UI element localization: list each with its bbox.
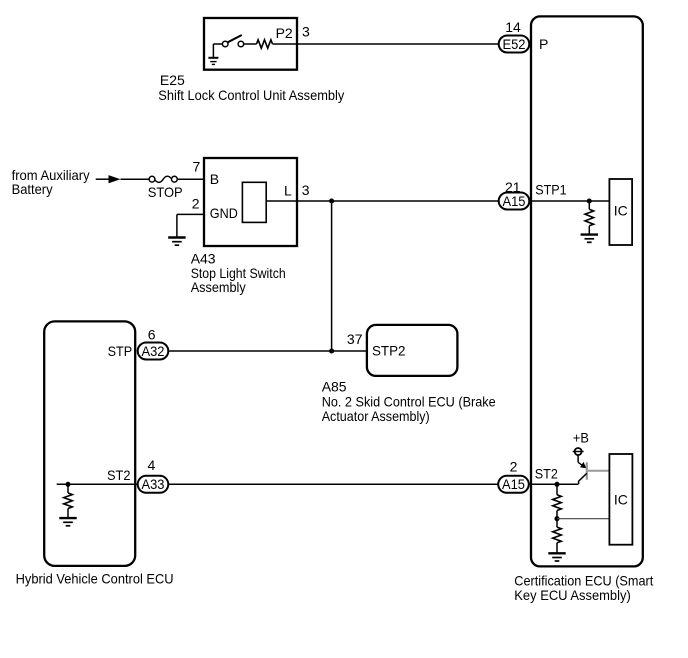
svg-text:E25: E25 bbox=[160, 72, 185, 88]
svg-text:STP: STP bbox=[108, 343, 133, 359]
svg-text:Shift Lock Control Unit Assemb: Shift Lock Control Unit Assembly bbox=[158, 87, 344, 103]
svg-text:2: 2 bbox=[510, 458, 518, 474]
svg-text:E52: E52 bbox=[503, 36, 526, 52]
svg-text:STP2: STP2 bbox=[372, 343, 406, 359]
svg-text:Actuator Assembly): Actuator Assembly) bbox=[322, 408, 430, 424]
svg-text:STOP: STOP bbox=[148, 184, 183, 200]
svg-text:A15: A15 bbox=[503, 193, 526, 209]
svg-text:3: 3 bbox=[302, 23, 310, 39]
svg-text:A33: A33 bbox=[142, 476, 165, 492]
svg-text:A43: A43 bbox=[191, 250, 216, 266]
svg-text:+B: +B bbox=[573, 430, 589, 446]
svg-text:6: 6 bbox=[148, 327, 156, 343]
svg-text:A32: A32 bbox=[142, 343, 165, 359]
svg-text:2: 2 bbox=[192, 196, 200, 212]
svg-text:L: L bbox=[284, 182, 292, 198]
svg-text:A15: A15 bbox=[502, 476, 525, 492]
svg-text:Battery: Battery bbox=[12, 181, 53, 197]
svg-text:A85: A85 bbox=[322, 379, 347, 395]
svg-text:STP1: STP1 bbox=[535, 181, 567, 197]
svg-text:P2: P2 bbox=[276, 25, 293, 41]
svg-text:21: 21 bbox=[505, 179, 521, 195]
svg-text:B: B bbox=[210, 171, 219, 187]
svg-text:37: 37 bbox=[347, 331, 363, 347]
svg-text:Key ECU Assembly): Key ECU Assembly) bbox=[514, 587, 631, 603]
svg-text:14: 14 bbox=[505, 19, 521, 35]
svg-text:P: P bbox=[539, 36, 548, 52]
svg-text:ST2: ST2 bbox=[107, 467, 131, 483]
svg-text:ST2: ST2 bbox=[535, 465, 558, 481]
svg-text:7: 7 bbox=[193, 158, 201, 174]
svg-text:IC: IC bbox=[614, 203, 628, 219]
svg-text:GND: GND bbox=[210, 205, 238, 221]
svg-text:3: 3 bbox=[302, 182, 310, 198]
svg-text:IC: IC bbox=[614, 491, 628, 507]
svg-text:Hybrid Vehicle Control ECU: Hybrid Vehicle Control ECU bbox=[16, 571, 174, 587]
svg-text:Assembly: Assembly bbox=[191, 279, 246, 295]
svg-text:4: 4 bbox=[148, 457, 156, 473]
